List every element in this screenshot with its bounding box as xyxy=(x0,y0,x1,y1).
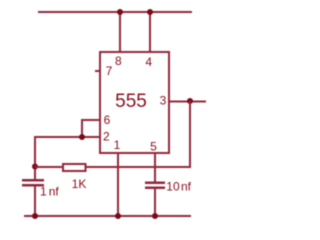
node: junction dot top rail / pin 8 xyxy=(117,9,123,15)
wire: pin 1 down to ground rail xyxy=(117,152,119,217)
svg-text:4: 4 xyxy=(145,55,152,69)
wire: pin 7 stub xyxy=(95,70,99,72)
wire: C1 bottom to ground rail xyxy=(34,187,36,217)
node: junction dot pin2/pin6 xyxy=(79,134,85,140)
svg-text:nf: nf xyxy=(49,185,60,199)
svg-text:1: 1 xyxy=(40,185,47,199)
svg-text:10: 10 xyxy=(166,180,180,194)
svg-text:1: 1 xyxy=(114,138,121,152)
wire: pin 5 down to C2 xyxy=(154,152,156,182)
wire: left vertical from pin2 corner down to C1 xyxy=(34,136,36,180)
node: junction dot resistor branch xyxy=(32,164,38,170)
node: junction dot ground / C2 branch xyxy=(152,213,158,219)
wire: pin 2 horizontal xyxy=(34,136,99,138)
capacitor C2 10 nf xyxy=(145,182,165,190)
node: junction dot ground / C1 branch xyxy=(32,213,38,219)
node: junction dot on pin 3 output xyxy=(187,98,193,104)
svg-text:nf: nf xyxy=(181,180,192,194)
wire: right vertical from pin 3 down to resistor line xyxy=(189,101,191,167)
wire: horizontal through resistor to right vertical xyxy=(35,166,191,168)
wire: pin 4 to top rail xyxy=(149,11,151,52)
wire: pin 3 output stub xyxy=(170,101,206,103)
svg-text:6: 6 xyxy=(104,113,111,127)
value label 10 nf xyxy=(166,180,191,194)
value label 1 nf xyxy=(40,185,59,199)
wire: ground bottom rail xyxy=(24,215,191,217)
capacitor C1 1 nf xyxy=(22,179,44,187)
svg-text:2: 2 xyxy=(103,130,110,144)
wire: pin 8 to top rail xyxy=(119,11,121,52)
node: junction dot ground / pin 1 xyxy=(115,213,121,219)
wire: pin 6 to pin 2 vertical link xyxy=(81,119,83,138)
svg-text:3: 3 xyxy=(160,94,167,108)
wire: pin 6 stub xyxy=(81,119,99,121)
wire: C2 bottom to ground rail xyxy=(154,189,156,217)
node: junction dot top rail / pin 4 xyxy=(147,9,153,15)
svg-text:1K: 1K xyxy=(72,177,87,191)
svg-text:8: 8 xyxy=(115,54,122,68)
svg-text:5: 5 xyxy=(150,140,157,154)
svg-text:555: 555 xyxy=(115,91,147,112)
svg-text:7: 7 xyxy=(106,64,113,78)
IC U1 555 timer body xyxy=(99,51,170,154)
wire: +V top supply rail xyxy=(38,11,192,13)
resistor R1 body xyxy=(63,164,86,171)
